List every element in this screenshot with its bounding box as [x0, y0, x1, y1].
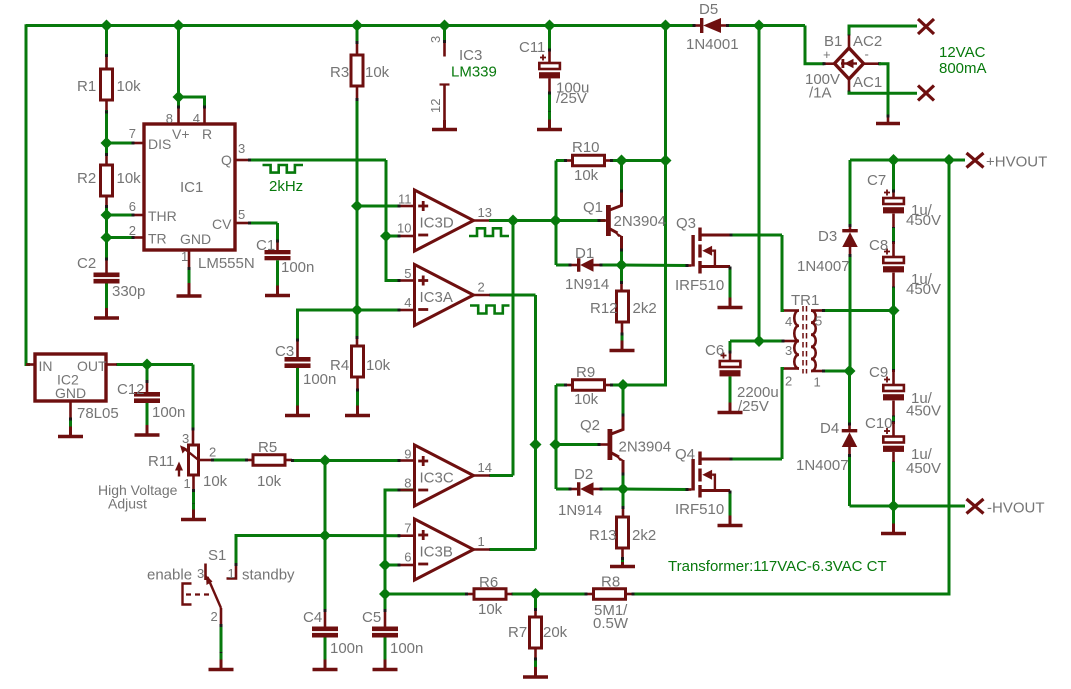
- wire Q4 drain to TR1 pin2: [730, 369, 785, 461]
- svg-text:14: 14: [478, 460, 492, 475]
- label 12VAC 800mA: [939, 44, 987, 77]
- node rail drop junction: [660, 155, 672, 167]
- svg-text:5: 5: [404, 266, 411, 281]
- label C3: [275, 343, 336, 388]
- wire CV pin to C1: [235, 222, 279, 251]
- svg-text:R5: R5: [258, 439, 277, 456]
- label IC3D output glyph: [469, 228, 509, 236]
- capacitor C3: [285, 357, 311, 368]
- svg-text:100n: 100n: [390, 640, 423, 657]
- switch S1 blade: [206, 575, 221, 608]
- wire R1 top lead: [105, 26, 108, 70]
- label C11: [519, 39, 589, 107]
- ground below C11: [537, 112, 562, 130]
- wire IC3A pin4: [357, 309, 415, 312]
- node Q1 base junction B2: [550, 215, 562, 227]
- svg-text:4: 4: [193, 111, 200, 126]
- svg-text:10: 10: [397, 221, 411, 236]
- svg-text:Q3: Q3: [676, 215, 696, 232]
- wire Q output pin3: [235, 159, 386, 237]
- wire V+ / R loop: [177, 26, 206, 125]
- svg-text:D1: D1: [575, 245, 594, 262]
- wire Q3 source to ground: [729, 267, 732, 296]
- capacitor C8: [883, 249, 904, 273]
- svg-text:CV: CV: [212, 216, 232, 232]
- svg-text:1N4001: 1N4001: [686, 36, 739, 53]
- label 2kHz glyph: [263, 165, 304, 173]
- svg-text:TR: TR: [148, 231, 167, 247]
- wire IC3C output to IC3D: [490, 221, 513, 476]
- svg-text:standby: standby: [242, 567, 295, 584]
- wire IC3B pin6: [385, 564, 415, 567]
- capacitor C10: [883, 428, 904, 452]
- label High Voltage Adjust: [98, 482, 178, 512]
- svg-text:C6: C6: [705, 342, 724, 359]
- svg-text:+HVOUT: +HVOUT: [986, 154, 1047, 171]
- wire +12V top rail: [26, 26, 824, 64]
- wire B1 plus lead: [823, 62, 835, 65]
- wire IC3C pin8 line: [385, 489, 415, 595]
- wire D1 to Q3 gate: [622, 264, 692, 267]
- ic IC3 power pin3: [443, 26, 446, 57]
- svg-text:4: 4: [785, 314, 792, 329]
- wire rail to C6/TR1 center tap (x=759): [758, 26, 761, 342]
- svg-text:4: 4: [404, 295, 411, 310]
- wire C10 to -HV line: [892, 452, 895, 506]
- node pin11 junction: [351, 200, 363, 212]
- svg-text:11: 11: [398, 192, 412, 207]
- svg-text:6: 6: [404, 550, 411, 565]
- svg-text:20k: 20k: [543, 624, 568, 641]
- wire IC2 IN stub: [26, 363, 35, 366]
- wire TR1 pin5 line: [822, 309, 894, 312]
- ground below Q3: [718, 293, 743, 308]
- wire R3 top lead: [356, 26, 359, 56]
- svg-text:1N914: 1N914: [558, 502, 602, 519]
- ground below -HVOUT: [881, 506, 906, 534]
- svg-text:10k: 10k: [574, 167, 599, 184]
- svg-text:IC3C: IC3C: [420, 470, 454, 487]
- svg-text:330p: 330p: [112, 283, 145, 300]
- terminal X AC1: [918, 86, 934, 101]
- label D5: [686, 1, 739, 53]
- wire IC2 OUT to R11: [106, 363, 195, 445]
- node rail junction R3: [351, 20, 363, 32]
- svg-text:10k: 10k: [366, 357, 391, 374]
- svg-text:450V: 450V: [906, 460, 941, 477]
- node HV junction feedback: [943, 154, 955, 166]
- svg-text:78L05: 78L05: [77, 405, 119, 422]
- label R5: [257, 439, 282, 490]
- svg-text:LM555N: LM555N: [198, 255, 255, 272]
- wire THR pin: [107, 214, 145, 217]
- capacitor C2: [94, 238, 120, 284]
- label +HVOUT: [986, 154, 1047, 171]
- label C8: [869, 237, 941, 298]
- wire Q1 collector: [620, 161, 623, 193]
- diode D1: [556, 221, 622, 272]
- svg-text:R13: R13: [589, 527, 617, 544]
- svg-text:2: 2: [209, 445, 216, 460]
- svg-text:C9: C9: [869, 364, 888, 381]
- wire C7 to C8: [892, 214, 895, 257]
- capacitor C1: [265, 250, 291, 260]
- op-amp IC3B: [404, 519, 492, 580]
- wire Q2 emitter: [622, 473, 625, 490]
- ic IC3 power pin12: [440, 85, 450, 128]
- op IC1 body: [144, 124, 235, 250]
- svg-text:D5: D5: [699, 1, 718, 18]
- label Q3: [675, 215, 724, 294]
- label Q4: [675, 446, 724, 518]
- label C5: [362, 609, 423, 657]
- capacitor C12: [134, 365, 160, 404]
- node pin5 junction: [888, 305, 900, 317]
- node D1 junction: [616, 259, 628, 271]
- node standby junction: [319, 530, 331, 542]
- node Q2 base junction B: [550, 439, 562, 451]
- wire IC3A output: [490, 295, 536, 445]
- svg-text:D2: D2: [574, 466, 593, 483]
- switch S1 pin1 contact: [227, 566, 237, 579]
- potentiometer R11 wiper: [180, 445, 199, 460]
- svg-text:IC3: IC3: [459, 47, 482, 64]
- svg-text:2N3904: 2N3904: [619, 439, 672, 456]
- transformer TR1 core: [803, 306, 807, 374]
- svg-text:10k: 10k: [117, 170, 142, 187]
- label S1: [208, 547, 226, 564]
- svg-text:Adjust: Adjust: [108, 496, 147, 512]
- ground below R12: [610, 339, 635, 351]
- svg-text:100n: 100n: [281, 259, 314, 276]
- svg-text:9: 9: [404, 447, 411, 462]
- label R7: [508, 624, 568, 641]
- svg-text:C11: C11: [519, 39, 545, 56]
- svg-text:C7: C7: [867, 172, 886, 189]
- op-amp IC3D: [397, 190, 492, 251]
- svg-text:R10: R10: [572, 139, 600, 156]
- wire R3 bottom chain: [356, 86, 359, 310]
- svg-text:450V: 450V: [906, 403, 941, 420]
- svg-text:enable: enable: [147, 567, 192, 584]
- node DIS junction: [101, 137, 113, 149]
- resistor R3: [351, 55, 363, 86]
- svg-text:R: R: [202, 126, 212, 142]
- wire C11 to ground: [548, 78, 551, 114]
- svg-text:10k: 10k: [117, 78, 142, 95]
- svg-text:10k: 10k: [574, 391, 599, 408]
- label 2kHz: [269, 178, 303, 195]
- node rail junction C11: [544, 20, 556, 32]
- resistor R13: [617, 489, 629, 564]
- svg-text:R8: R8: [601, 574, 620, 591]
- svg-text:5: 5: [238, 207, 245, 222]
- wire feedback from R8: [632, 160, 949, 594]
- svg-text:10k: 10k: [257, 473, 282, 490]
- svg-text:DIS: DIS: [148, 136, 171, 152]
- svg-text:1N4007: 1N4007: [796, 457, 849, 474]
- node feedback junction C5: [379, 588, 391, 600]
- svg-text:IRF510: IRF510: [675, 277, 724, 294]
- wire R6 to R7 junction: [506, 593, 594, 596]
- label IC1 pin numbers: [129, 111, 245, 264]
- wire R8 right: [626, 593, 635, 596]
- svg-text:2: 2: [785, 374, 792, 389]
- label enable: [147, 567, 295, 584]
- label -HVOUT: [987, 500, 1045, 517]
- label IC3A output glyph: [470, 306, 510, 314]
- label R10: [572, 139, 600, 184]
- ground below C12: [135, 403, 160, 435]
- node V+ junction: [173, 91, 185, 103]
- node IC3D out junction x555: [550, 215, 562, 227]
- transformer TR1 primary: [784, 311, 799, 369]
- label C4: [303, 609, 363, 657]
- wire IC3D pin11: [357, 205, 415, 208]
- node HV junction C7: [888, 154, 900, 166]
- node R5 output junction: [319, 455, 331, 467]
- node rail junction x759: [753, 20, 765, 32]
- node TR junction: [101, 232, 113, 244]
- svg-text:800mA: 800mA: [939, 60, 987, 77]
- diode D2: [556, 445, 623, 496]
- wire S1 common to ground: [220, 608, 223, 655]
- svg-text:IN: IN: [39, 358, 53, 374]
- node C12 junction: [141, 359, 153, 371]
- label D2: [558, 466, 602, 519]
- capacitor C6: [720, 341, 760, 376]
- label IC3 pin12: [428, 99, 443, 113]
- wire Q4 source to ground: [729, 491, 732, 520]
- node THR junction: [101, 209, 113, 221]
- ground below R7: [523, 664, 548, 677]
- wire R10 to rail junction: [622, 159, 666, 162]
- svg-text:13: 13: [478, 205, 492, 220]
- node pin10 junction: [380, 230, 392, 242]
- svg-text:-: -: [865, 47, 869, 62]
- label R12: [590, 300, 657, 317]
- svg-text:R4: R4: [330, 357, 349, 374]
- svg-text:1: 1: [181, 249, 188, 264]
- ground below S1: [209, 653, 234, 670]
- wire R4 top lead: [356, 310, 359, 346]
- transistor Q3: [691, 228, 730, 274]
- svg-text:D3: D3: [818, 228, 837, 245]
- label S1 pins: [197, 566, 235, 624]
- ground below C2: [94, 284, 119, 319]
- svg-text:100n: 100n: [330, 640, 363, 657]
- label R4: [330, 357, 391, 374]
- svg-text:10k: 10k: [365, 64, 390, 81]
- label C6: [705, 342, 779, 415]
- terminal X -HVOUT: [967, 499, 984, 514]
- potentiometer R11 body: [189, 445, 199, 475]
- wire +HVOUT rail: [850, 159, 965, 162]
- wire to C3: [296, 310, 357, 357]
- svg-text:2k2: 2k2: [633, 300, 657, 317]
- svg-text:1: 1: [814, 375, 821, 390]
- svg-text:1N914: 1N914: [565, 276, 609, 293]
- resistor R9: [556, 380, 623, 445]
- svg-text:D4: D4: [820, 420, 839, 437]
- resistor R1: [101, 69, 113, 100]
- label IC1 pins-inside: [148, 126, 232, 247]
- svg-text:R3: R3: [330, 64, 349, 81]
- svg-text:C2: C2: [77, 255, 96, 272]
- svg-text:100n: 100n: [152, 404, 185, 421]
- op-amp IC3C: [404, 445, 492, 506]
- svg-text:R12: R12: [590, 300, 618, 317]
- svg-text:3: 3: [785, 343, 792, 358]
- bridge rectifier B1: [835, 48, 864, 79]
- svg-text:C8: C8: [869, 237, 888, 254]
- potentiometer R11 arrow: [175, 462, 183, 477]
- label C7: [867, 172, 941, 229]
- wire R11 pin1 to ground: [192, 475, 195, 507]
- resistor R8: [594, 589, 626, 600]
- wire -HVOUT line: [850, 505, 966, 508]
- node rail junction R1: [101, 20, 113, 32]
- switch S1 pin3 contact: [204, 564, 207, 581]
- label D3: [797, 228, 850, 275]
- wire R4 bottom lead: [356, 377, 359, 402]
- wire B1 AC1 to X: [848, 79, 918, 93]
- svg-text:1: 1: [478, 534, 485, 549]
- label C9: [869, 364, 941, 420]
- label IC2 texts: [39, 358, 108, 401]
- svg-text:THR: THR: [148, 208, 177, 224]
- svg-text:8: 8: [166, 111, 173, 126]
- svg-text:IC3D: IC3D: [420, 215, 454, 232]
- svg-text:3: 3: [197, 566, 204, 581]
- wire rail to R9/Q2 collector (x=665): [623, 26, 666, 386]
- node rail junction above IC1: [173, 20, 185, 32]
- svg-text:R6: R6: [479, 574, 498, 591]
- transistor Q1: [606, 192, 623, 250]
- svg-text:Q2: Q2: [580, 417, 600, 434]
- svg-text:/25V: /25V: [738, 398, 769, 415]
- label C1: [256, 237, 314, 276]
- label R11: [148, 453, 228, 490]
- wire TR1 pin1 line: [822, 370, 850, 373]
- svg-text:6: 6: [129, 199, 136, 214]
- node R9 junction: [617, 379, 629, 391]
- svg-text:LM339: LM339: [451, 64, 497, 81]
- svg-text:Q1: Q1: [583, 199, 603, 216]
- wire IC2 GND pin: [69, 401, 72, 426]
- svg-text:C3: C3: [275, 343, 294, 360]
- node IC3D out junction x513: [507, 215, 519, 227]
- wire 555 out to pins 10/5: [386, 236, 415, 282]
- svg-text:Q4: Q4: [675, 446, 695, 463]
- label R6: [478, 574, 503, 618]
- svg-text:R7: R7: [508, 624, 527, 641]
- resistor R12: [617, 265, 629, 341]
- transistor Q2: [608, 416, 625, 474]
- svg-text:IRF510: IRF510: [675, 501, 724, 518]
- label C10: [865, 415, 941, 477]
- svg-text:GND: GND: [55, 385, 86, 401]
- wire R11 wiper to R5: [199, 459, 254, 462]
- svg-text:2: 2: [478, 280, 485, 295]
- ground below R13: [610, 562, 635, 567]
- ground below Q4: [718, 516, 743, 526]
- svg-text:C10: C10: [865, 415, 893, 432]
- label R9: [574, 364, 599, 408]
- svg-text:Transformer:117VAC-6.3VAC CT: Transformer:117VAC-6.3VAC CT: [668, 558, 887, 575]
- svg-text:V+: V+: [172, 126, 190, 142]
- terminal X AC2: [918, 19, 934, 34]
- svg-text:3: 3: [238, 141, 245, 156]
- svg-text:1: 1: [228, 566, 235, 581]
- ground below C5: [373, 638, 398, 670]
- label LM555N: [198, 255, 255, 272]
- svg-text:0.5W: 0.5W: [593, 615, 629, 632]
- wire feedback line left: [385, 593, 474, 596]
- wire R1 bottom to DIS node: [105, 99, 108, 143]
- svg-text:12VAC: 12VAC: [939, 44, 986, 61]
- terminal X +HVOUT: [967, 153, 984, 168]
- node D3/D4 junction: [844, 365, 856, 377]
- svg-text:2N3904: 2N3904: [614, 213, 667, 230]
- ground below C3: [285, 368, 310, 416]
- svg-text:1: 1: [184, 476, 191, 491]
- capacitor C9: [883, 311, 904, 401]
- diode D5: [693, 18, 730, 33]
- svg-text:GND: GND: [180, 231, 211, 247]
- wire Q1 base: [556, 219, 607, 222]
- svg-text:2kHz: 2kHz: [269, 178, 303, 195]
- node pin4 junction: [351, 304, 363, 316]
- resistor R4: [352, 346, 364, 377]
- label B1: [805, 33, 882, 102]
- label IC3 pin3: [428, 36, 443, 43]
- capacitor C4: [312, 609, 338, 638]
- wire C8 to pin5 node: [892, 273, 895, 311]
- label R8: [593, 574, 629, 633]
- label TR1: [791, 292, 819, 309]
- label C2: [77, 255, 145, 300]
- svg-text:AC1: AC1: [853, 74, 882, 91]
- label Q2: [580, 417, 671, 456]
- node pin6 junction: [379, 559, 391, 571]
- svg-text:7: 7: [404, 521, 411, 536]
- svg-text:TR1: TR1: [791, 292, 819, 309]
- wire IC3D pin10: [386, 235, 415, 238]
- switch S1 actuator: [183, 584, 214, 605]
- wire B1 minus to ground: [864, 62, 890, 123]
- svg-text:450V: 450V: [906, 281, 941, 298]
- wire Q2 base: [556, 443, 608, 446]
- resistor R5: [253, 455, 285, 466]
- svg-text:R9: R9: [576, 364, 595, 381]
- svg-text:+: +: [823, 47, 831, 62]
- svg-text:R2: R2: [77, 170, 96, 187]
- svg-text:-HVOUT: -HVOUT: [987, 500, 1045, 517]
- wire IC1 GND pin1: [188, 250, 191, 283]
- wire TR pin: [107, 236, 145, 239]
- wire Q2 collector: [622, 385, 625, 417]
- capacitor C7: [883, 160, 904, 213]
- ground below IC1: [177, 283, 202, 296]
- wire Q1 emitter: [620, 249, 623, 266]
- svg-text:2: 2: [211, 609, 218, 624]
- svg-text:2: 2: [129, 223, 136, 238]
- ground below B1: [876, 122, 900, 125]
- resistor R10: [556, 155, 622, 220]
- op-amp IC3A: [404, 265, 492, 326]
- ground below C6: [718, 376, 743, 412]
